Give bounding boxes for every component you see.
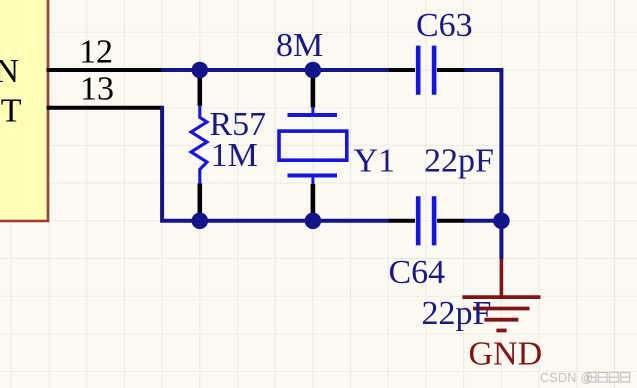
ground GND bar 3 — [484, 318, 518, 322]
junction node at Y1 bottom — [305, 213, 322, 230]
crystal Y1 top plate — [288, 113, 338, 117]
capacitor C64 left plate — [416, 196, 421, 245]
svg-text:CSDN @: CSDN @ — [540, 371, 593, 385]
svg-text:T: T — [1, 92, 22, 129]
pin 13 (black pin line) — [49, 106, 161, 110]
resistor R57 body (blue zigzag) — [191, 106, 207, 184]
ground GND bar 2 — [473, 307, 530, 311]
crystal Y1 top pin (black) — [311, 70, 316, 107]
wire: from pin13 down and along bottom rail to C64 left lead — [162, 106, 389, 221]
ground GND bar 4 — [496, 329, 506, 333]
capacitor C63 right lead (black) — [437, 68, 465, 72]
pin 13 ic-edge dot — [47, 106, 51, 110]
svg-text:22pF: 22pF — [422, 295, 492, 332]
ground GND stem — [500, 259, 504, 298]
svg-text:C63: C63 — [416, 7, 473, 44]
junction node at Y1 top — [305, 62, 322, 79]
crystal Y1 bottom plate — [288, 174, 338, 178]
svg-text:1M: 1M — [211, 137, 258, 174]
junction node at right rail / C64 — [493, 213, 510, 230]
capacitor C63 right plate — [432, 46, 437, 95]
capacitor C64 right lead (black) — [437, 219, 465, 223]
IC U? body (partial, clipped at left/top) — [0, 0, 48, 221]
wire: junction down to GND stem — [499, 221, 503, 260]
svg-text:Y1: Y1 — [354, 143, 396, 180]
capacitor C63 left plate — [416, 46, 421, 95]
crystal Y1 bottom pin (black) — [311, 184, 316, 221]
capacitor C64 right plate — [432, 196, 437, 245]
resistor R57 bottom pin (black) — [198, 183, 203, 221]
pin 12 (black pin line) — [49, 68, 161, 72]
svg-text:13: 13 — [80, 71, 114, 108]
crystal Y1 top electrode stub — [311, 107, 314, 113]
capacitor C63 left lead (black) — [389, 68, 415, 72]
junction node at R57 top — [192, 62, 209, 79]
svg-text:12: 12 — [79, 34, 113, 71]
svg-text:8M: 8M — [276, 27, 323, 64]
resistor R57 top pin (black) — [198, 70, 203, 106]
svg-text:22pF: 22pF — [424, 143, 494, 180]
wire: C64 right lead to junction — [465, 219, 502, 223]
watermark CSDN @子墨城西 — [540, 371, 593, 385]
svg-text:C64: C64 — [389, 254, 446, 291]
wire: C63 right lead to right rail corner, down to C64 junction — [465, 70, 502, 221]
capacitor C64 left lead (black) — [389, 219, 415, 223]
crystal Y1 body rectangle — [279, 131, 347, 160]
ground GND bar 1 — [462, 295, 540, 299]
junction node at R57 bottom — [192, 213, 209, 230]
svg-text:N: N — [0, 53, 19, 90]
crystal Y1 bottom electrode stub — [311, 178, 314, 185]
svg-text:GND: GND — [469, 335, 543, 372]
wire: top rail from pin12 to C63 left lead — [161, 68, 389, 72]
pin 12 ic-edge dot — [47, 68, 51, 72]
